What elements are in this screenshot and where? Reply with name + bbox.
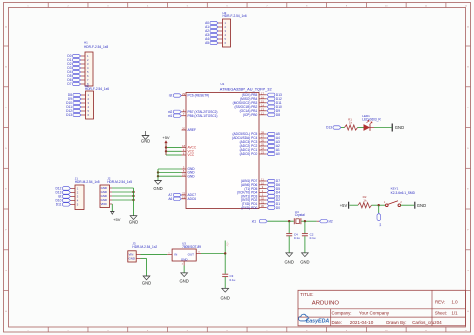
svg-text:D13: D13 xyxy=(326,126,332,130)
svg-text:1k: 1k xyxy=(363,198,367,202)
svg-text:GND: GND xyxy=(141,139,150,144)
svg-text:K2-3.6x6.1_SMD: K2-3.6x6.1_SMD xyxy=(391,191,416,195)
svg-text:7805/SOT-89: 7805/SOT-89 xyxy=(182,245,201,249)
svg-text:1k: 1k xyxy=(349,121,353,125)
svg-text:D8: D8 xyxy=(276,113,280,117)
svg-text:PB6 (XTAL1/TOSC1): PB6 (XTAL1/TOSC1) xyxy=(188,114,218,118)
svg-text:EasyEDA: EasyEDA xyxy=(306,318,330,324)
svg-text:GND: GND xyxy=(181,257,189,261)
svg-text:AREF: AREF xyxy=(188,128,197,132)
svg-text:rst: rst xyxy=(379,224,382,227)
svg-text:VDD: VDD xyxy=(101,202,107,206)
svg-text:ARDUINO: ARDUINO xyxy=(312,301,340,307)
svg-text:GND: GND xyxy=(221,295,230,300)
svg-text:xt2: xt2 xyxy=(328,219,332,223)
svg-text:OUT: OUT xyxy=(188,253,195,257)
svg-text:H1: H1 xyxy=(84,40,88,44)
svg-text:G: G xyxy=(467,270,469,272)
svg-text:rst: rst xyxy=(169,94,173,98)
svg-text:GND: GND xyxy=(188,174,196,178)
svg-text:GND: GND xyxy=(142,280,151,285)
svg-text:+5V: +5V xyxy=(162,135,170,140)
svg-text:U1: U1 xyxy=(221,82,225,86)
svg-text:Company:: Company: xyxy=(332,311,352,316)
svg-text:1.0: 1.0 xyxy=(452,300,459,305)
svg-text:GND: GND xyxy=(129,257,135,261)
svg-text:GND: GND xyxy=(153,186,162,191)
svg-text:GND: GND xyxy=(395,125,404,130)
svg-text:0.1u: 0.1u xyxy=(294,236,300,240)
svg-text:0.1u: 0.1u xyxy=(310,236,316,240)
svg-text:D7: D7 xyxy=(67,82,71,86)
svg-text:(ADC0) PC0: (ADC0) PC0 xyxy=(240,152,258,156)
svg-text:D0: D0 xyxy=(276,206,280,210)
svg-text:VCC: VCC xyxy=(188,153,195,157)
svg-text:HDR-M-2.54_1x2: HDR-M-2.54_1x2 xyxy=(132,245,157,249)
svg-text:Crystal: Crystal xyxy=(295,213,305,217)
svg-text:HDR-M-2.54_1x5: HDR-M-2.54_1x5 xyxy=(107,180,132,184)
svg-text:G: G xyxy=(5,270,7,272)
svg-text:xt1: xt1 xyxy=(168,114,172,118)
svg-text:PC6 (RESET#): PC6 (RESET#) xyxy=(188,94,210,98)
svg-text:A6: A6 xyxy=(168,197,172,201)
svg-text:A0: A0 xyxy=(276,152,280,156)
svg-text:REV:: REV: xyxy=(435,300,445,305)
svg-text:GND: GND xyxy=(129,220,138,225)
svg-text:Date:: Date: xyxy=(332,320,343,325)
svg-text:KEY1: KEY1 xyxy=(391,187,399,191)
svg-text:0.1u: 0.1u xyxy=(230,278,236,282)
svg-text:D11: D11 xyxy=(56,203,62,207)
svg-text:LED-0603_R: LED-0603_R xyxy=(362,118,381,122)
svg-text:Sheet:: Sheet: xyxy=(435,311,447,316)
svg-text:Your Company: Your Company xyxy=(359,311,390,316)
svg-text:+5V: +5V xyxy=(113,217,121,222)
svg-text:GND: GND xyxy=(417,203,426,208)
svg-text:ATMEGA328P_AU_TQFP_32: ATMEGA328P_AU_TQFP_32 xyxy=(220,87,272,92)
svg-text:Carlos_cruz04: Carlos_cruz04 xyxy=(412,320,442,325)
svg-text:1/1: 1/1 xyxy=(452,311,459,316)
svg-text:D13: D13 xyxy=(66,113,72,117)
svg-text:HDR-F-2.54_1x8: HDR-F-2.54_1x8 xyxy=(84,45,108,49)
svg-text:GND: GND xyxy=(179,278,188,283)
svg-text:xt1: xt1 xyxy=(252,219,256,223)
svg-text:ADC6: ADC6 xyxy=(188,197,197,201)
svg-text:HDR-F-2.54_1x6: HDR-F-2.54_1x6 xyxy=(85,87,109,91)
svg-text:(ICP) PB0: (ICP) PB0 xyxy=(243,113,258,117)
svg-text:+5V: +5V xyxy=(340,203,348,208)
svg-text:Drawn By:: Drawn By: xyxy=(386,320,406,325)
svg-text:IN: IN xyxy=(174,253,177,257)
svg-text:HDR-M-2.54_1x5: HDR-M-2.54_1x5 xyxy=(75,180,100,184)
svg-text:(RXD) PD0: (RXD) PD0 xyxy=(241,206,257,210)
svg-text:2021-04-10: 2021-04-10 xyxy=(350,320,374,325)
svg-text:+5V: +5V xyxy=(226,242,230,247)
svg-text:GND: GND xyxy=(300,259,309,264)
svg-text:GND: GND xyxy=(285,259,294,264)
svg-text:TITLE:: TITLE: xyxy=(300,292,313,297)
svg-text:HDR-F-2.54_1x6: HDR-F-2.54_1x6 xyxy=(223,14,247,18)
svg-text:A5: A5 xyxy=(205,41,209,45)
